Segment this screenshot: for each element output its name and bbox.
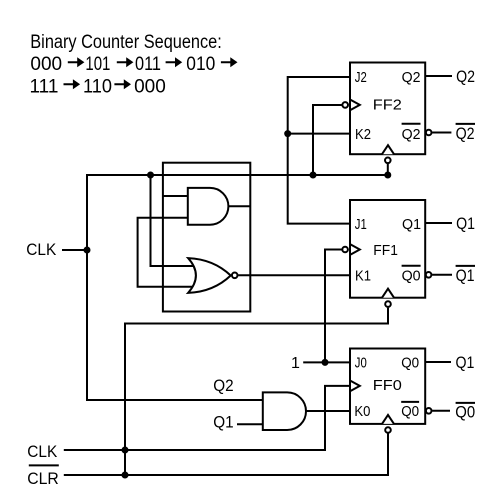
svg-text:Q0: Q0 bbox=[402, 268, 421, 285]
wire CLK/CLR net: y175 rail, left vertical, Q2 branch to AND2 bbox=[87, 175, 388, 400]
svg-text:Q1: Q1 bbox=[402, 216, 421, 233]
svg-text:J2: J2 bbox=[355, 69, 367, 86]
wire FF1 clock feed from "1" net bbox=[325, 250, 342, 363]
flip-flop FF0 bbox=[350, 349, 432, 433]
and-gate AND2 (bottom) bbox=[263, 392, 306, 430]
svg-text:CLK: CLK bbox=[27, 442, 58, 461]
wire AND1 lower input / NOR lower input net bbox=[138, 218, 194, 287]
svg-text:Q0: Q0 bbox=[401, 403, 419, 420]
wire FF2 clock feed from y175 rail bbox=[313, 105, 342, 175]
svg-text:K0: K0 bbox=[354, 403, 370, 420]
svg-text:K2: K2 bbox=[355, 126, 371, 143]
svg-text:J1: J1 bbox=[355, 216, 367, 233]
svg-text:K1: K1 bbox=[355, 268, 371, 285]
wire K2 branch bbox=[288, 133, 350, 135]
nor-gate NOR1 bbox=[188, 258, 237, 293]
svg-text:Q0: Q0 bbox=[455, 403, 475, 421]
wire FF0 Q0 output bbox=[425, 361, 451, 363]
svg-text:Q1: Q1 bbox=[213, 413, 233, 432]
svg-text:Q1: Q1 bbox=[456, 354, 475, 372]
svg-text:010: 010 bbox=[186, 54, 215, 75]
node junction x313/y175 bbox=[310, 172, 317, 179]
wire FF2 Q2-bar output bbox=[432, 132, 451, 134]
node junction K2 branch bbox=[284, 130, 291, 137]
wire FF0 Q0-bar output bbox=[432, 410, 450, 412]
wire FF1 Q1-bar output bbox=[432, 274, 452, 276]
svg-text:1: 1 bbox=[291, 355, 300, 372]
flip-flop FF1 bbox=[342, 200, 431, 307]
node junction FF1-clear vertical / CLK rail bbox=[122, 447, 129, 454]
svg-text:111: 111 bbox=[30, 76, 59, 97]
wire Q1 input to AND2 bbox=[237, 423, 263, 425]
wire constant 1 to J0 bbox=[303, 361, 350, 363]
svg-text:Q1: Q1 bbox=[456, 267, 475, 285]
node junction x150.5/y175 bbox=[147, 172, 154, 179]
gates enclosure box bbox=[163, 163, 250, 312]
wire AND1 output to box edge bbox=[228, 205, 250, 207]
wire NOR upper input feed from y175 rail bbox=[151, 175, 195, 266]
flip-flop FF2 bbox=[342, 63, 431, 164]
wire FF1 Q1 output bbox=[425, 222, 452, 224]
svg-text:FF0: FF0 bbox=[373, 377, 402, 394]
node junction "1" net / FF1 clock bbox=[322, 359, 329, 366]
svg-text:Q1: Q1 bbox=[456, 215, 475, 233]
node junction FF2 clear / y175 rail bbox=[384, 172, 391, 179]
svg-text:Q2: Q2 bbox=[402, 69, 421, 86]
svg-text:Q0: Q0 bbox=[401, 355, 419, 372]
svg-text:CLR: CLR bbox=[27, 469, 59, 488]
svg-text:000: 000 bbox=[30, 54, 62, 75]
wire AND1 top input from box edge bbox=[163, 195, 188, 197]
wire FF2 Q2 output bbox=[425, 75, 452, 77]
svg-text:FF1: FF1 bbox=[373, 242, 398, 259]
wire CLK (left input) to junction bbox=[62, 249, 87, 251]
wire NOR output to K1 bbox=[238, 274, 350, 276]
and-gate AND1 bbox=[188, 188, 229, 225]
wire FF2 clear stem from bubble to y175 rail bbox=[387, 163, 389, 175]
title text: binary counter sequence bbox=[30, 32, 238, 97]
node junction FF1-clear vertical / CLR rail bbox=[122, 472, 129, 479]
svg-text:J0: J0 bbox=[355, 355, 367, 372]
svg-text:110: 110 bbox=[83, 76, 112, 97]
svg-text:Binary Counter Sequence:: Binary Counter Sequence: bbox=[30, 32, 222, 53]
wire J2 / K2 / J1 net (vertical x287.7) bbox=[288, 77, 350, 224]
svg-text:011: 011 bbox=[135, 54, 161, 75]
node junction CLK on vertical x87 bbox=[84, 247, 91, 254]
svg-text:101: 101 bbox=[85, 54, 110, 75]
svg-text:Q2: Q2 bbox=[402, 126, 421, 143]
svg-text:Q2: Q2 bbox=[456, 125, 475, 143]
wire FF1 clear to CLK/CLR bottom rails bbox=[125, 308, 388, 475]
wire AND2 output to K0 bbox=[306, 410, 350, 412]
svg-text:Q2: Q2 bbox=[456, 68, 475, 86]
svg-text:FF2: FF2 bbox=[373, 97, 402, 114]
wire CLK bottom rail to FF0 clock bbox=[64, 386, 350, 450]
svg-text:CLK: CLK bbox=[26, 240, 57, 259]
svg-text:000: 000 bbox=[134, 76, 166, 97]
svg-text:Q2: Q2 bbox=[213, 376, 233, 395]
wire CLR bottom rail to FF0 clear bubble bbox=[64, 434, 388, 476]
